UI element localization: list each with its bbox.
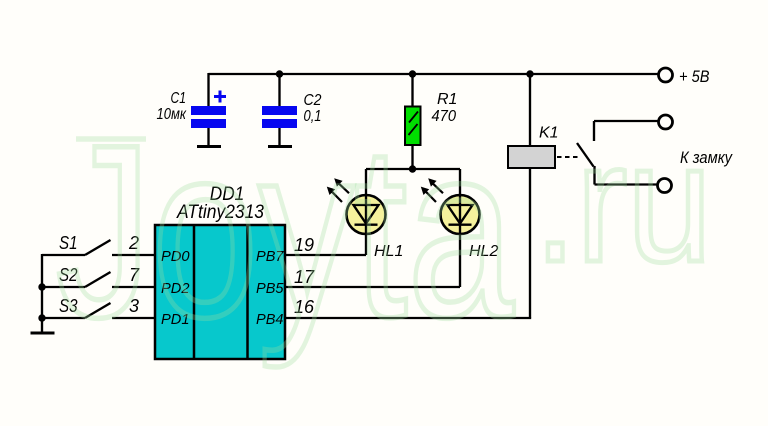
capacitor C2 [262,74,322,146]
svg-text:10мк: 10мк [157,106,188,123]
switch S2 [42,265,155,287]
svg-text:S2: S2 [59,265,78,285]
wire top +5V rail [209,73,659,75]
switch S1 [42,233,155,255]
svg-text:S3: S3 [59,296,78,316]
relay contact switch [577,121,595,185]
wire to upper lock terminal [594,120,658,122]
wire to lower lock terminal [595,183,658,185]
svg-text:PB5: PB5 [256,281,284,297]
wire PB5 to HL2 [285,286,460,288]
node junction K1/top rail [526,70,533,77]
svg-text:0,1: 0,1 [304,108,322,125]
relay K1 coil [508,74,559,318]
node junction C2/top rail [276,70,283,77]
node junction S2/bus [38,283,45,290]
svg-text:7: 7 [129,265,140,285]
svg-text:PD0: PD0 [161,249,190,265]
svg-text:19: 19 [294,235,314,255]
relay actuator dashed link [557,156,579,158]
terminal +5V [659,68,673,82]
svg-text:3: 3 [129,296,139,316]
LED HL2 [421,169,499,287]
svg-text:C2: C2 [304,92,322,109]
node junction R1/top rail [409,70,416,77]
resistor R1 470 [405,74,457,169]
LED HL1 [327,169,404,260]
capacitor C1 [157,73,227,146]
wire switch common bus [41,254,43,332]
svg-text:PB7: PB7 [256,249,284,265]
svg-text:HL1: HL1 [374,243,403,260]
svg-text:16: 16 [294,297,315,317]
node junction S3/bus [38,314,45,321]
svg-text:R1: R1 [437,91,457,108]
ground under switch bus [31,332,55,335]
IC DD1 ATtiny2313 [155,183,285,359]
svg-text:470: 470 [432,108,457,125]
switch S3 [42,296,155,318]
svg-text:ATtiny2313: ATtiny2313 [176,201,264,223]
terminal upper lock contact [659,115,673,129]
svg-text:PD1: PD1 [161,312,190,328]
svg-text:PB4: PB4 [256,312,284,328]
terminal lower lock contact [658,179,672,193]
svg-text:PD2: PD2 [161,281,190,297]
svg-text:К замку: К замку [680,148,733,167]
svg-text:2: 2 [128,233,139,253]
svg-text:C1: C1 [171,90,187,107]
svg-text:17: 17 [294,267,315,287]
svg-text:K1: K1 [539,125,559,142]
svg-text:S1: S1 [59,233,78,253]
svg-text:HL2: HL2 [469,243,498,260]
node junction R1/LED rail [409,165,416,172]
ground under C1 [197,145,221,148]
wire PB7 to HL1 [285,254,366,256]
svg-text:+ 5В: + 5В [679,67,710,86]
wire PB4 to K1 [285,317,530,318]
wire LED rail [366,168,460,170]
ground under C2 [268,145,292,148]
